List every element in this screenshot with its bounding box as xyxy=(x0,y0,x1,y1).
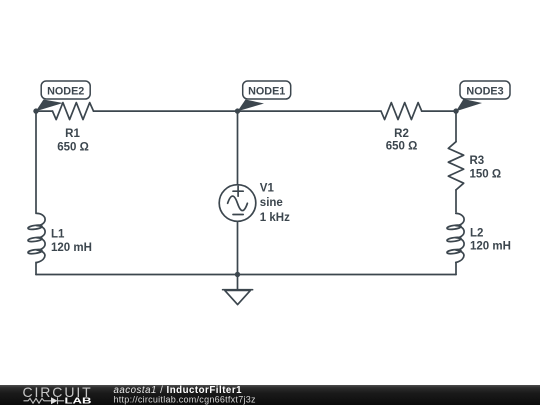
svg-text:1 kHz: 1 kHz xyxy=(260,212,290,224)
logo resistor squiggle wire xyxy=(24,398,52,403)
V1 plus sign xyxy=(233,186,243,196)
svg-text:LAB: LAB xyxy=(65,395,92,405)
wire V1 to bottom junction xyxy=(237,221,239,274)
wire left branch down to L1 xyxy=(35,111,37,213)
node2 flag pointer xyxy=(36,100,63,112)
svg-text:150 Ω: 150 Ω xyxy=(470,168,502,180)
source V1 circle xyxy=(219,185,256,222)
wire L1 to bottom xyxy=(35,262,37,274)
bottom wire xyxy=(36,274,456,276)
resistor R3 xyxy=(448,142,463,190)
junction node3 xyxy=(453,108,458,113)
svg-text:NODE1: NODE1 xyxy=(248,86,285,98)
svg-text:L1: L1 xyxy=(51,228,65,240)
svg-text:NODE2: NODE2 xyxy=(47,86,84,98)
svg-text:120 mH: 120 mH xyxy=(470,240,511,252)
junction node1 xyxy=(235,108,240,113)
node NODE1 box xyxy=(243,81,291,99)
svg-text:L2: L2 xyxy=(470,228,483,240)
node3 flag pointer xyxy=(456,99,482,111)
junction node2 xyxy=(33,108,38,113)
svg-text:650 Ω: 650 Ω xyxy=(57,141,89,153)
ground stub xyxy=(237,275,239,290)
wire node3 down to R3 xyxy=(455,111,457,142)
footer bar xyxy=(0,385,540,405)
svg-text:NODE3: NODE3 xyxy=(466,86,503,98)
svg-text:R2: R2 xyxy=(394,128,409,140)
logo diode symbol xyxy=(51,397,58,404)
svg-text:120 mH: 120 mH xyxy=(51,242,92,254)
resistor R1 xyxy=(53,103,94,120)
node NODE2 box xyxy=(41,81,90,99)
inductor L2 xyxy=(456,213,464,262)
svg-text:http://circuitlab.com/cgn66tfx: http://circuitlab.com/cgn66tfxt7j3z xyxy=(114,394,257,404)
resistor R2 xyxy=(381,103,422,120)
wire L2 to bottom xyxy=(455,262,457,274)
node NODE3 box xyxy=(460,81,510,99)
svg-text:650 Ω: 650 Ω xyxy=(386,141,418,153)
wire R1 to R2 through node1 xyxy=(94,110,382,112)
svg-text:V1: V1 xyxy=(260,182,275,194)
svg-text:R3: R3 xyxy=(470,155,485,167)
svg-text:R1: R1 xyxy=(65,128,80,140)
V1 minus sign xyxy=(233,214,243,216)
node1 flag pointer xyxy=(238,100,265,112)
wire R2 to node3 xyxy=(422,110,456,112)
V1 sine wave xyxy=(228,196,248,211)
wire node1 down to V1 xyxy=(237,111,239,185)
inductor L1 xyxy=(37,213,45,262)
junction bottom center xyxy=(235,272,240,277)
wire R3 to L2 xyxy=(455,190,457,212)
svg-text:sine: sine xyxy=(260,197,283,209)
ground symbol xyxy=(223,290,253,305)
wire top-left node2 to R1 xyxy=(36,110,53,112)
